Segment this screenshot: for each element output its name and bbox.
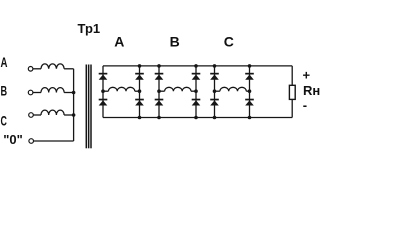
- terminal B: [28, 90, 33, 95]
- top rail wire: [103, 65, 292, 67]
- primary winding A: [41, 64, 64, 69]
- diode D8: [192, 99, 201, 106]
- secondary winding C lead right: [246, 90, 249, 92]
- branch 5 wire: [214, 66, 216, 118]
- wire B winding to neutral bus: [64, 92, 74, 94]
- transformer core: [86, 65, 91, 149]
- diode D5: [155, 73, 164, 80]
- secondary winding B: [165, 87, 191, 91]
- svg-text:В: В: [170, 34, 180, 50]
- wire to load top: [291, 66, 293, 85]
- svg-text:С: С: [1, 112, 7, 128]
- wire B terminal to winding: [33, 92, 41, 94]
- branch 4 wire: [195, 66, 197, 118]
- diode D6: [155, 99, 164, 106]
- terminal 0: [29, 139, 34, 144]
- svg-text:А: А: [114, 34, 124, 50]
- neutral bus wire: [73, 69, 75, 141]
- wire neutral 0 to bus: [34, 140, 74, 142]
- secondary winding B lead left: [159, 90, 165, 92]
- secondary winding B lead right: [191, 90, 196, 92]
- secondary winding A lead right: [135, 90, 140, 92]
- secondary winding C: [220, 87, 246, 91]
- diode D10: [210, 99, 219, 106]
- wire A terminal to winding: [33, 68, 41, 70]
- diode D1: [99, 73, 108, 80]
- secondary winding C lead left: [215, 90, 220, 92]
- diode D4: [135, 99, 144, 106]
- wire C terminal to winding: [33, 114, 41, 116]
- svg-text:-: -: [303, 98, 307, 113]
- terminal A: [28, 67, 33, 72]
- junction nodes bottom rail: [138, 116, 252, 120]
- diode D12: [245, 99, 254, 106]
- branch 3 wire: [158, 66, 160, 118]
- junction node C-bus: [72, 113, 76, 117]
- junction node B-bus: [72, 91, 76, 95]
- terminal C: [29, 113, 34, 118]
- svg-text:+: +: [303, 68, 311, 83]
- junction nodes top rail: [138, 64, 252, 68]
- junction nodes midpoints: [101, 89, 251, 93]
- wire A winding to neutral bus: [64, 68, 74, 70]
- diode D3: [135, 73, 144, 80]
- diode D7: [192, 73, 201, 80]
- bottom rail wire: [103, 117, 292, 119]
- svg-text:В: В: [1, 82, 8, 98]
- load resistor Rn: [289, 85, 295, 99]
- wire load bottom: [291, 99, 293, 117]
- wire C winding to neutral bus: [64, 114, 74, 116]
- secondary winding A: [108, 87, 134, 91]
- diode D2: [99, 99, 108, 106]
- branch 1 wire: [102, 66, 104, 118]
- branch 2 wire: [139, 66, 141, 118]
- svg-text:А: А: [1, 54, 8, 70]
- primary winding C: [41, 110, 64, 115]
- svg-text:С: С: [224, 34, 234, 50]
- branch 6 wire: [249, 66, 251, 118]
- svg-text:"0": "0": [3, 132, 23, 147]
- secondary winding A leads: [103, 90, 108, 92]
- diode D9: [210, 73, 219, 80]
- svg-text:Тр1: Тр1: [78, 21, 101, 36]
- svg-text:Rн: Rн: [303, 83, 320, 98]
- primary winding B: [41, 88, 64, 93]
- diode D11: [245, 73, 254, 80]
